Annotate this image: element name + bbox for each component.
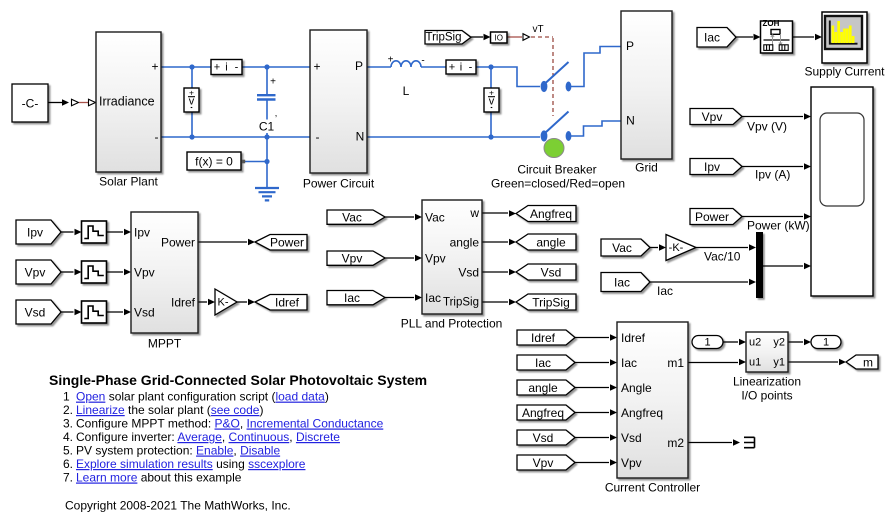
from tag Vpv (scope) (690, 109, 742, 125)
svg-text:angle: angle (450, 235, 480, 249)
svg-text:Idref: Idref (171, 295, 196, 309)
svg-text:L: L (403, 84, 410, 98)
wire ZOH to Supply Current scope (793, 34, 823, 41)
wire PLL angle to angle goto (482, 239, 516, 246)
svg-text:,: , (275, 108, 278, 118)
voltage sensor V2 (484, 88, 499, 113)
svg-text:1Open solar plant configuratio: 1Open solar plant configuration script (… (63, 390, 329, 404)
svg-text:P: P (355, 59, 363, 73)
svg-text:-: - (421, 56, 424, 67)
from tag Idref (CC) (517, 330, 575, 345)
svg-text:Vpv: Vpv (621, 456, 642, 470)
svg-text:u1: u1 (749, 356, 761, 368)
svg-text:-: - (469, 61, 473, 73)
svg-text:Single-Phase Grid-Connected So: Single-Phase Grid-Connected Solar Photov… (49, 372, 427, 388)
outport 1 (811, 336, 841, 349)
wire Constant to Solar Plant Irradiance (48, 99, 96, 106)
svg-text:Angfreq: Angfreq (621, 406, 663, 420)
svg-text:+: + (151, 60, 158, 74)
wire N rail Power Circuit to breaker (367, 136, 540, 138)
svg-text:TripSig: TripSig (443, 296, 479, 308)
svg-text:Vpv: Vpv (342, 251, 363, 265)
junction node DC- / V1 (189, 134, 194, 139)
mux (756, 232, 763, 298)
svg-text:+: + (388, 55, 394, 66)
wire Vpv tag to scope (742, 113, 811, 120)
from tag Vpv (MPPT) (16, 260, 61, 284)
svg-text:Linearization: Linearization (733, 375, 801, 389)
svg-text:Supply Current: Supply Current (804, 65, 885, 79)
rate transition 3 (82, 301, 107, 323)
wire Ipv tag to rate transition 1 (61, 229, 82, 236)
from tag Power (scope) (690, 209, 742, 225)
from tag Iac (CC) (517, 355, 575, 370)
wire Idref tag to Current Controller (575, 334, 617, 341)
constant -C- (12, 84, 48, 122)
svg-text:f(x) = 0: f(x) = 0 (195, 155, 233, 169)
from tag Vac (PLL) (327, 210, 385, 224)
svg-text:m2: m2 (667, 436, 684, 450)
current sensor +i- (grid side) (446, 60, 476, 74)
wire Iac tag to mux (650, 279, 756, 286)
wire angle tag to Current Controller (575, 384, 617, 391)
svg-text:Angle: Angle (621, 381, 652, 395)
svg-text:y1: y1 (773, 356, 785, 368)
svg-text:i: i (225, 61, 227, 73)
goto tag angle (516, 234, 576, 250)
svg-text:+: + (214, 61, 220, 73)
value label C1 (256, 120, 277, 134)
svg-text:v: v (189, 96, 195, 108)
wire voltage sensor V1 branch (191, 67, 193, 137)
svg-text:Vsd: Vsd (621, 431, 642, 445)
svg-text:Power: Power (270, 235, 304, 249)
wire f(x)=0 to node (245, 161, 267, 163)
svg-text:+: + (270, 77, 276, 88)
svg-text:y2: y2 (773, 336, 785, 348)
svg-text:Vsd: Vsd (533, 431, 554, 445)
svg-text:MPPT: MPPT (148, 337, 182, 351)
voltage sensor V1 (184, 88, 199, 113)
junction node ground / f(x) (264, 159, 269, 164)
wire Linearization y2 to outport 1 (788, 339, 811, 346)
svg-text:Grid: Grid (635, 161, 658, 175)
svg-text:Ipv: Ipv (704, 160, 720, 174)
ground (255, 188, 279, 200)
svg-text:Circuit Breaker: Circuit Breaker (517, 163, 596, 177)
svg-text:N: N (626, 114, 635, 128)
scope Supply Current (822, 12, 867, 63)
svg-text:Vac: Vac (342, 210, 362, 224)
inductor L (388, 55, 425, 68)
from tag Vac (mux) (601, 239, 650, 256)
from tag Ipv (MPPT) (16, 220, 61, 244)
wire ground branch (266, 137, 268, 187)
from tag Vsd (MPPT) (16, 300, 61, 324)
subsystem Current Controller (605, 322, 700, 495)
svg-text:-K-: -K- (669, 242, 684, 254)
svg-text:2.Linearize the solar plant (s: 2.Linearize the solar plant (see code) (63, 403, 263, 417)
circuit breaker pole P (541, 62, 572, 92)
svg-text:+: + (449, 61, 455, 73)
wire PLL TripSig to TripSig goto (482, 299, 516, 306)
wire Current Controller m1 to Linearization u1 (688, 359, 746, 366)
goto tag m (846, 355, 878, 369)
svg-text:PLL and Protection: PLL and Protection (401, 317, 503, 331)
svg-text:v: v (489, 96, 495, 108)
wire PLL w to Angfreq goto (482, 210, 516, 217)
wire P rail Power Circuit to breaker (367, 67, 540, 87)
svg-text:P: P (626, 39, 634, 53)
svg-text:angle: angle (528, 381, 558, 395)
wire voltage sensor V2 branch (490, 67, 492, 137)
svg-text:Solar Plant: Solar Plant (99, 175, 158, 189)
svg-text:Vpv: Vpv (702, 110, 723, 124)
circuit breaker pole N (541, 112, 572, 142)
annotation list (63, 390, 384, 485)
svg-text:Green=closed/Red=open: Green=closed/Red=open (491, 177, 625, 191)
goto tag TripSig (516, 294, 576, 310)
svg-text:C1: C1 (259, 120, 275, 134)
svg-text:-: - (235, 61, 239, 73)
junction node N rail / V2 (488, 134, 493, 139)
svg-text:w: w (469, 206, 479, 220)
wire Vsd tag to rate transition 3 (61, 309, 82, 316)
wire capacitor C1 branch (266, 67, 268, 137)
rate transition 2 (82, 261, 107, 283)
goto tag Vsd (516, 264, 576, 280)
current sensor +i- (PV side) (211, 60, 242, 75)
from tag Iac (mux) (601, 273, 650, 292)
from tag Vpv (CC) (517, 455, 575, 470)
breaker status lamp (green=closed) (544, 139, 564, 158)
svg-text:m1: m1 (667, 356, 684, 370)
terminator (744, 437, 755, 447)
svg-text:Vpv: Vpv (425, 251, 446, 265)
svg-text:Angfreq: Angfreq (530, 207, 572, 221)
inport 1 (692, 336, 723, 349)
svg-text:i: i (460, 61, 462, 73)
from tag angle (CC) (517, 380, 575, 395)
svg-text:Vpv: Vpv (533, 456, 554, 470)
svg-text:Idref: Idref (531, 331, 556, 345)
from tag Iac (PLL) (327, 291, 385, 305)
svg-text:ZOH: ZOH (763, 19, 780, 28)
svg-text:Iac: Iac (704, 31, 720, 45)
wire inport 1 to Linearization u2 (723, 339, 746, 346)
svg-text:Vpv: Vpv (25, 265, 46, 279)
wire gain K- to Idref goto (237, 299, 255, 306)
svg-text:7.Learn more about this exampl: 7.Learn more about this example (63, 471, 242, 485)
junction node DC+ / C1 (264, 64, 269, 69)
wire rate transition 2 to MPPT Vpv (107, 269, 132, 276)
gain K- (Idref) (215, 289, 237, 315)
goto tag Angfreq (516, 206, 576, 222)
svg-text:Iac: Iac (344, 291, 360, 305)
svg-text:+: + (313, 60, 320, 74)
svg-text:Ipv: Ipv (27, 225, 43, 239)
junction node DC- / C1 (264, 134, 269, 139)
svg-text:Idref: Idref (275, 295, 300, 309)
svg-text:Vpv (V): Vpv (V) (747, 120, 787, 134)
wire rate transition 1 to MPPT Ipv (107, 229, 132, 236)
wire Iac tag to PLL (385, 294, 422, 301)
wire DC+ rail Solar Plant to Power Circuit (161, 66, 310, 68)
from tag Iac (supply) (697, 28, 736, 48)
wire MPPT Power to Power goto (198, 239, 255, 246)
svg-text:3.Configure MPPT method: P&O,: 3.Configure MPPT method: P&O, Incrementa… (63, 417, 384, 431)
svg-text:TripSig: TripSig (426, 32, 462, 44)
svg-text:5.PV system protection: Enable: 5.PV system protection: Enable, Disable (63, 444, 280, 458)
from tag Angfreq (CC) (517, 405, 575, 420)
wire Vpv tag to rate transition 2 (61, 269, 82, 276)
svg-text:u2: u2 (749, 336, 761, 348)
svg-text:IO: IO (494, 33, 502, 42)
wire Vsd tag to Current Controller (575, 434, 617, 441)
subsystem MPPT (131, 212, 198, 351)
block IO (491, 32, 508, 43)
svg-text:Iac: Iac (535, 356, 551, 370)
svg-text:Iac: Iac (621, 356, 637, 370)
block ZOH rate transition (761, 19, 793, 53)
svg-text:angle: angle (536, 235, 566, 249)
wire Ipv tag to scope (742, 163, 811, 170)
svg-text:Iac: Iac (657, 284, 673, 298)
goto tag TripSig (425, 31, 471, 45)
junction node P rail / V2 (488, 64, 493, 69)
svg-text:6.Explore simulation results u: 6.Explore simulation results using sscex… (63, 457, 306, 471)
subsystem Power Circuit (303, 30, 375, 191)
wire Power tag to scope (742, 213, 811, 220)
capacitor C1 (257, 77, 277, 119)
svg-text:Vsd: Vsd (458, 265, 479, 279)
junction node DC+ / V1 (189, 64, 194, 69)
wire Vpv tag to PLL (385, 255, 422, 262)
svg-text:TripSig: TripSig (532, 295, 570, 309)
rate transition 1 (82, 221, 107, 243)
subsystem PLL and Protection (401, 200, 503, 331)
wire mux to scope (763, 263, 811, 270)
svg-text:Iac: Iac (614, 275, 630, 289)
from tag Vpv (PLL) (327, 251, 385, 265)
wire Linearization y1 to goto m (788, 359, 846, 366)
goto tag Power (255, 235, 307, 251)
svg-text:I/O points: I/O points (741, 389, 792, 403)
svg-text:Power Circuit: Power Circuit (303, 177, 375, 191)
svg-text:Ipv: Ipv (134, 225, 150, 239)
subsystem Grid (621, 11, 672, 175)
svg-text:4.Configure inverter: Average,: 4.Configure inverter: Average, Continuou… (63, 430, 340, 444)
svg-text:vT: vT (532, 24, 543, 35)
svg-text:Vpv: Vpv (134, 265, 155, 279)
svg-text:Power: Power (161, 235, 195, 249)
svg-text:Angfreq: Angfreq (522, 406, 564, 420)
wire Current Controller m2 to terminator (688, 439, 740, 446)
wire breaker to Grid N (571, 121, 621, 136)
svg-text:Irradiance: Irradiance (99, 95, 155, 109)
solver f(x)=0 (187, 152, 245, 170)
wire TripSig to IO (471, 34, 491, 40)
wire Vac tag to gain (650, 244, 666, 251)
gain -K- (Vac/10) (666, 235, 696, 261)
svg-text:Power: Power (695, 210, 729, 224)
from tag Ipv (scope) (690, 159, 742, 175)
wire PLL Vsd to Vsd goto (482, 269, 516, 276)
svg-text:1: 1 (823, 336, 829, 348)
svg-text:1: 1 (704, 336, 710, 348)
svg-text:-: - (316, 130, 320, 144)
wire Vac tag to PLL (385, 214, 422, 221)
wire breaker to Grid P (571, 47, 621, 87)
wire IO to vT trip signal (dashed) (507, 34, 553, 116)
wire rate transition 3 to MPPT Vsd (107, 309, 132, 316)
svg-text:Ipv (A): Ipv (A) (755, 168, 790, 182)
svg-text:Vsd: Vsd (541, 265, 562, 279)
svg-text:Vsd: Vsd (25, 305, 46, 319)
svg-text:Idref: Idref (621, 331, 646, 345)
wire gain to mux (696, 244, 756, 251)
svg-text:Iac: Iac (425, 291, 441, 305)
wire Vpv tag to Current Controller (575, 459, 617, 466)
svg-text:Power (kW): Power (kW) (747, 219, 810, 233)
from tag Vsd (CC) (517, 430, 575, 445)
svg-text:-C-: -C- (22, 97, 39, 111)
svg-text:Vac: Vac (612, 241, 632, 255)
wire Angfreq tag to Current Controller (575, 409, 617, 416)
svg-text:-: - (155, 130, 159, 144)
wire Iac tag to Current Controller (575, 359, 617, 366)
svg-text:Copyright 2008-2021 The MathWo: Copyright 2008-2021 The MathWorks, Inc. (65, 499, 291, 513)
svg-text:Vsd: Vsd (134, 305, 155, 319)
svg-text:m: m (863, 355, 873, 369)
subsystem Solar Plant (96, 32, 161, 189)
goto tag Idref (255, 295, 307, 311)
svg-text:Vac: Vac (425, 210, 445, 224)
svg-text:N: N (356, 130, 365, 144)
wire Iac to ZOH (736, 34, 761, 41)
svg-text:K-: K- (218, 296, 229, 308)
svg-text:Vac/10: Vac/10 (704, 250, 741, 264)
wire MPPT Idref to gain K- (198, 299, 215, 306)
block Linearization I/O points (733, 332, 801, 403)
wire DC- rail Solar Plant to Power Circuit (161, 136, 310, 138)
svg-text:Current Controller: Current Controller (605, 481, 700, 495)
scope PV measurements (811, 87, 873, 296)
